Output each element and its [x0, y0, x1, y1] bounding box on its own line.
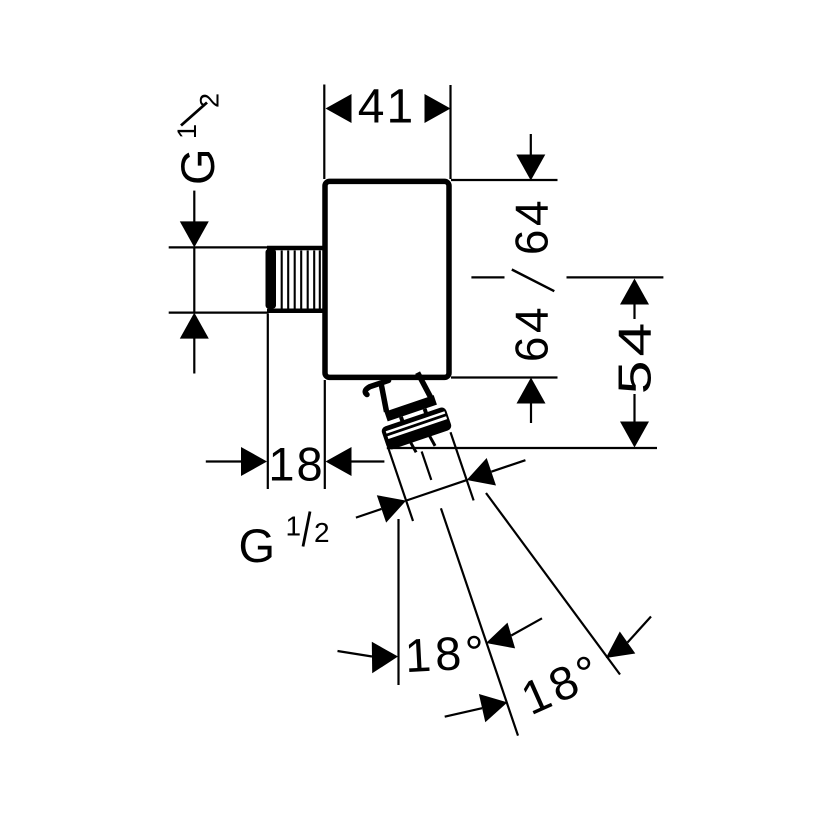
angle arrow A4 stem: [628, 617, 652, 643]
nozzle G 1/2 left stem: [356, 509, 382, 518]
nozzle G 1/2 right arrow: [462, 458, 496, 494]
angle arrow A1 stem: [338, 651, 373, 657]
dim 64/64 bottom stem: [530, 403, 532, 424]
G 1/2 left label (rotated): [171, 93, 225, 185]
svg-text:2: 2: [195, 93, 225, 108]
svg-text:2: 2: [314, 517, 330, 548]
collar stripe 2: [388, 418, 447, 438]
body bottom extension right: [451, 376, 558, 378]
dim 41 arrow right: [425, 94, 451, 123]
G 1/2 left dim line mid: [193, 247, 195, 312]
svg-text:1: 1: [172, 124, 202, 139]
nozzle nipple edge left: [411, 442, 416, 453]
nozzle upper band: [384, 395, 436, 421]
dim 54 bottom arrow (down): [620, 422, 649, 448]
angle arrow A1: [372, 642, 398, 674]
dim 18 extension line left: [267, 314, 269, 489]
dim 64/64 top arrow (down): [516, 155, 545, 181]
svg-text:41: 41: [358, 81, 415, 134]
G 1/2 bottom label: [239, 511, 330, 573]
collar stripe 1: [386, 412, 445, 432]
nozzle nipple edge right: [430, 435, 435, 446]
dim 54 bottom stem: [633, 394, 635, 423]
dim 54 top arrow (up): [620, 279, 649, 305]
dim 64/64 top arrow stem: [530, 134, 532, 156]
svg-text:54: 54: [610, 319, 661, 394]
angle 36deg line: [486, 493, 620, 675]
svg-text:G: G: [171, 148, 224, 185]
angle arrow A3 stem: [445, 708, 482, 717]
dim 18 extension line right: [324, 380, 326, 489]
svg-text:1: 1: [286, 511, 302, 542]
nozzle axis line upper: [422, 452, 432, 480]
dim 18 right stem: [351, 460, 385, 462]
G 1/2 left dim line: [193, 191, 195, 223]
dim 54 top stem: [633, 304, 635, 320]
extension line A: [388, 448, 413, 521]
dim 18 left stem: [206, 460, 243, 462]
angle vertical reference line: [397, 519, 399, 685]
nozzle G 1/2 left arrow: [377, 487, 411, 523]
body square: [325, 181, 449, 377]
nozzle collar: [380, 406, 452, 451]
nozzle neck left edge: [377, 383, 390, 412]
extension line B: [450, 432, 473, 500]
body top extension right: [451, 179, 558, 181]
dim 64/64 bottom arrow (up): [517, 378, 546, 404]
svg-text:18°: 18°: [404, 625, 490, 682]
thread connector left cap: [266, 249, 277, 309]
dim 64/64 slash: [512, 270, 555, 292]
angle arrow A4: [606, 632, 636, 659]
nozzle neck right edge: [418, 371, 431, 399]
dim 41 extension line left: [323, 85, 325, 180]
angle arrow A2 stem: [511, 618, 542, 635]
thread connector top edge: [267, 246, 323, 251]
G 1/2 left bottom arrow (up): [180, 313, 209, 339]
G 1/2 left top arrow (down): [180, 221, 209, 247]
bottom extension line: [387, 447, 657, 449]
G 1/2 left extension top: [169, 246, 268, 248]
center line right: [567, 276, 664, 278]
nozzle G 1/2 right stem: [491, 460, 525, 472]
nozzle G 1/2 dim line: [406, 480, 467, 501]
svg-text:18: 18: [268, 438, 324, 491]
G 1/2 left extension bottom: [169, 312, 269, 314]
nozzle group (rotated about pivot): [318, 347, 609, 762]
center line tick left: [471, 276, 504, 278]
svg-text:G: G: [239, 519, 276, 572]
nozzle axis line lower (18deg line): [441, 508, 518, 735]
thread stripes: [282, 251, 320, 309]
dim 18 left arrow (right): [241, 447, 267, 476]
nozzle band ticks: [399, 416, 405, 423]
dim 41 arrow left: [326, 94, 352, 123]
nozzle hook flange: [364, 380, 391, 394]
angle arrow A2: [486, 623, 515, 649]
G 1/2 left dim stem bottom: [193, 338, 195, 374]
dim 41 extension line right: [449, 85, 451, 179]
dim 18 right arrow (left): [326, 447, 352, 476]
angle arrow A3: [479, 694, 508, 722]
thread connector bottom edge: [267, 309, 323, 314]
